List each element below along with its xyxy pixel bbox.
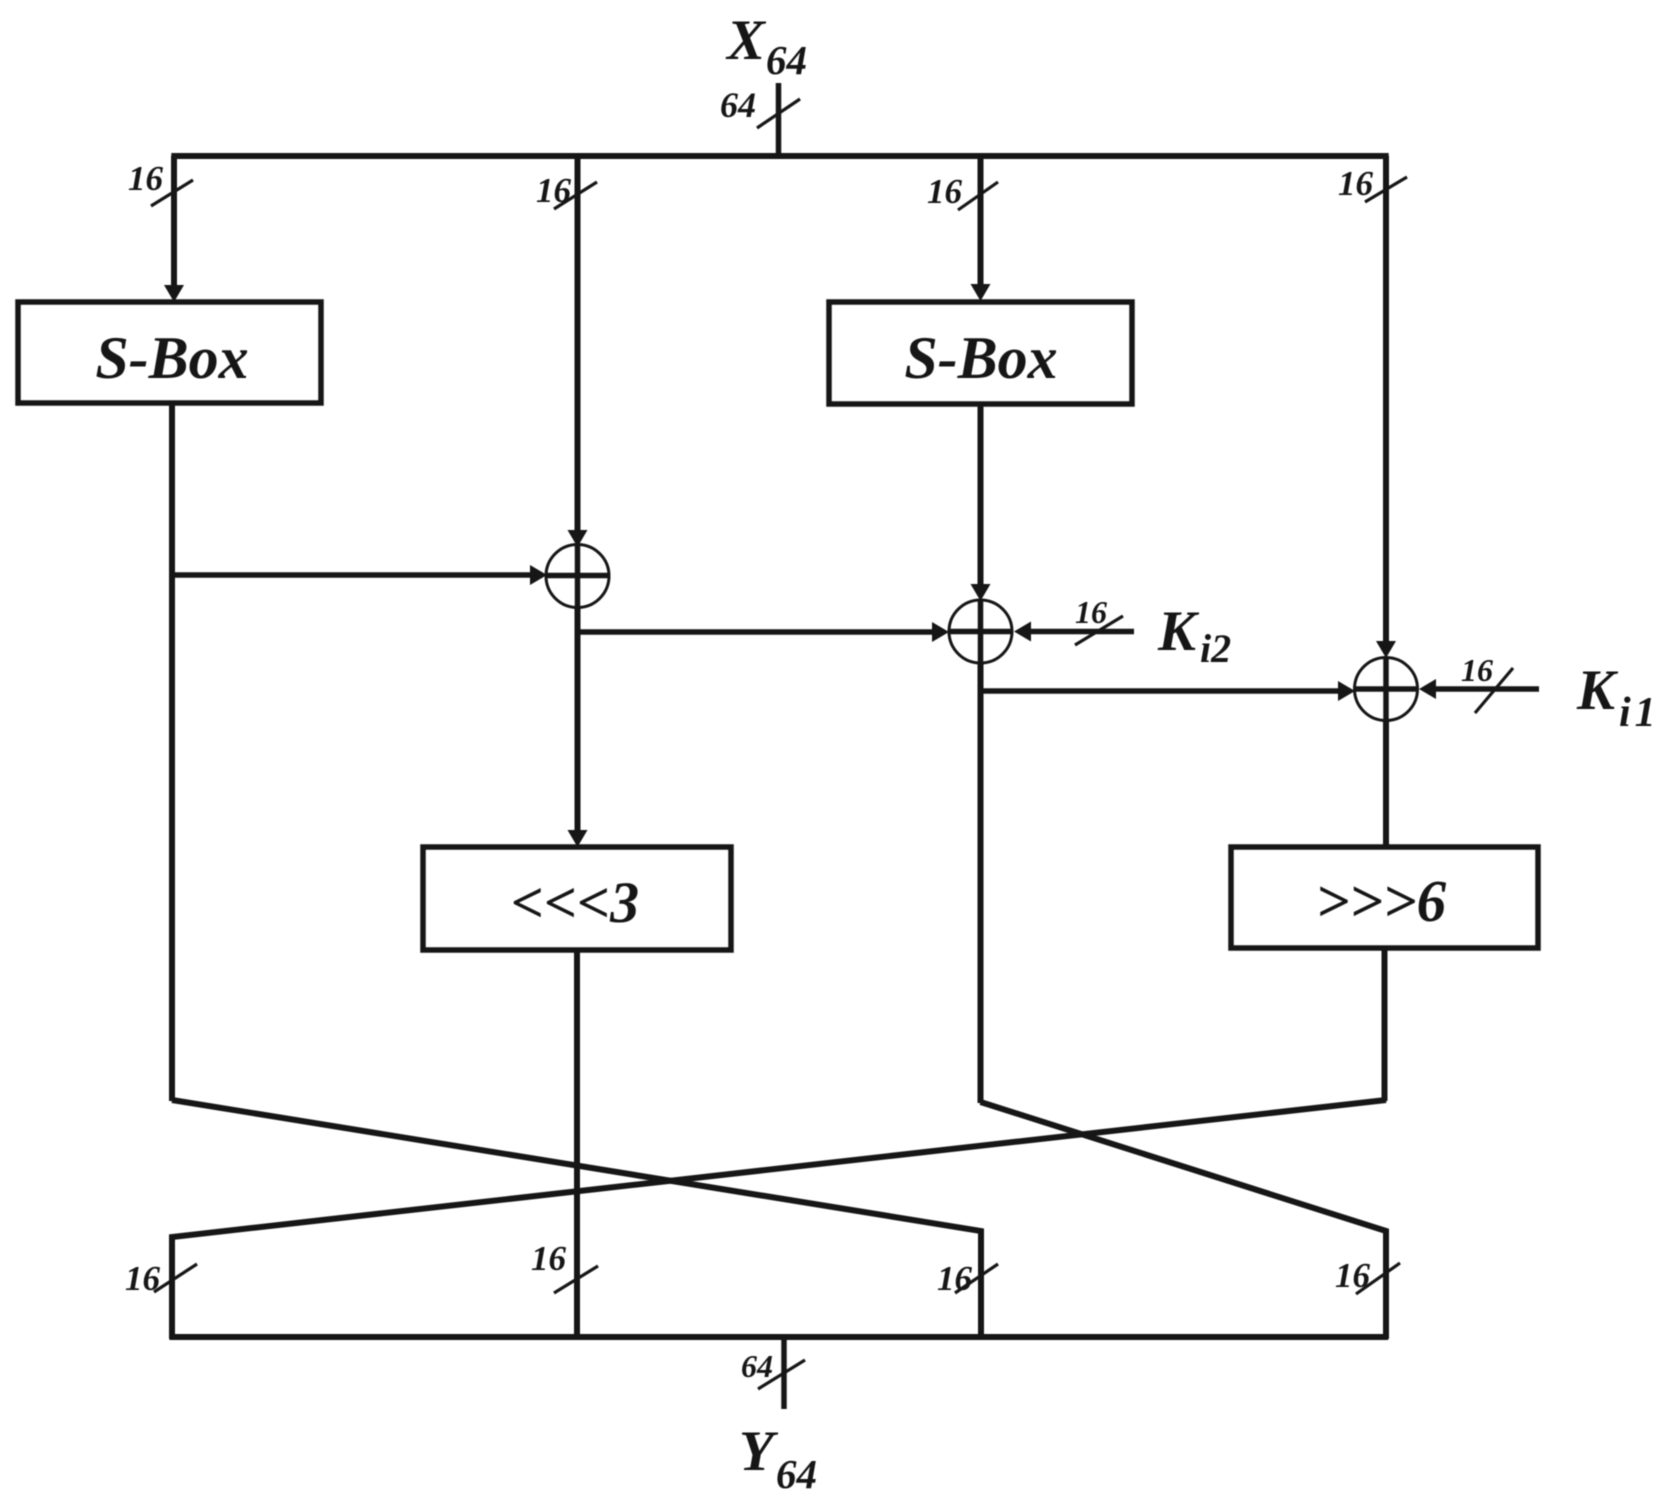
svg-text:Y: Y (739, 1420, 779, 1483)
svg-text:64: 64 (720, 85, 756, 125)
xor gate XOR3 (1355, 658, 1418, 721)
arrowhead into XOR3 (right) (1419, 679, 1436, 699)
bus slash (bottom position 4) (1356, 1263, 1400, 1294)
bus slash (bottom position 2) (554, 1266, 598, 1293)
arrowhead into XOR1 (left) (530, 565, 547, 585)
wire key Ki2 input (1029, 629, 1134, 635)
arrowhead into XOR2 (right) (1014, 622, 1031, 642)
bus slash (branch 3 top) (958, 182, 998, 210)
bus slash (branch 4 top) (1365, 177, 1407, 202)
bus width 16 label (branch 3 top) (927, 172, 963, 211)
wire XOR1 to XOR2 horizontal (578, 629, 934, 635)
wire XOR3 to >>>6 vertical (1383, 720, 1389, 848)
block rotate right >>>6 (1231, 847, 1538, 948)
wire branch 4 vertical (top) (1383, 156, 1389, 643)
arrowhead into <<<3 (568, 830, 588, 847)
block rotate left <<<3 (423, 847, 731, 950)
svg-text:<<<3: <<<3 (511, 870, 639, 935)
node Ki1 label (1576, 659, 1660, 736)
svg-text:K: K (1157, 600, 1200, 663)
bus slash (branch 2 top) (554, 182, 597, 209)
svg-text:16: 16 (128, 159, 164, 198)
bus width 16 label (branch 4 top) (1338, 164, 1374, 203)
wire XOR1 output vertical (575, 607, 581, 833)
svg-text:16: 16 (536, 171, 572, 210)
arrowhead into XOR1 (568, 530, 588, 547)
node Y64 (739, 1420, 817, 1497)
bus width 16 label (bottom position 2) (531, 1239, 567, 1278)
bus width 16 label (bottom position 3) (937, 1259, 973, 1298)
bus width 64 label (bottom) (741, 1348, 773, 1384)
svg-text:X: X (725, 9, 767, 72)
arrowhead into XOR2 (left) (932, 622, 949, 642)
bus width 64 label (top) (720, 85, 756, 125)
arrowhead into S-Box 1 (164, 285, 184, 302)
svg-text:S-Box: S-Box (904, 325, 1057, 391)
bus slash (top 64) (757, 99, 800, 128)
block S-Box 2 (829, 302, 1132, 404)
wire >>>6 output vertical (1382, 948, 1388, 1101)
svg-text:64: 64 (741, 1348, 773, 1384)
wire crossover diagonal branch3 to position4 (981, 1102, 1387, 1339)
bus slash (bottom position 1) (154, 1264, 197, 1292)
xor gate XOR1 (546, 545, 609, 608)
wire branch 3 vertical (top) (978, 156, 984, 285)
bus slash (Ki1) (1475, 668, 1513, 713)
wire S-Box 1 output vertical (169, 403, 175, 1101)
svg-text:i2: i2 (1200, 626, 1231, 671)
wire branch 1 vertical (top) (171, 156, 177, 286)
svg-text:64: 64 (776, 1451, 817, 1497)
bus slash (bottom position 3) (955, 1264, 998, 1293)
bus width 16 label (Ki2) (1075, 594, 1107, 630)
arrowhead into XOR3 (1376, 641, 1396, 658)
svg-text:16: 16 (1075, 594, 1107, 630)
bus width 16 label (Ki1) (1461, 652, 1493, 688)
wire crossover diagonal branch4 to position1 (172, 1100, 1386, 1339)
svg-text:16: 16 (1461, 652, 1493, 688)
svg-text:i1: i1 (1619, 690, 1660, 736)
svg-text:16: 16 (927, 172, 963, 211)
wire top distribution line (171, 153, 1388, 159)
bus slash (Ki2) (1075, 616, 1123, 645)
node Ki2 label (1157, 600, 1231, 671)
arrowhead into XOR2 (top) (971, 584, 991, 601)
bus width 16 label (branch 2 top) (536, 171, 572, 210)
svg-text:>>>6: >>>6 (1316, 868, 1447, 934)
svg-text:16: 16 (1338, 164, 1374, 203)
wire X64 input stem (776, 83, 782, 156)
arrowhead into XOR3 (left) (1338, 681, 1355, 701)
xor gate XOR2 (949, 600, 1012, 663)
bus width 16 label (bottom position 4) (1335, 1256, 1371, 1295)
wire crossover diagonal branch1 to position3 (172, 1100, 981, 1339)
bus width 16 label (bottom position 1) (125, 1259, 161, 1298)
bus width 16 label (branch 1 top) (128, 159, 164, 198)
node X64 (725, 9, 807, 83)
wire key Ki1 input (1434, 686, 1539, 692)
wire branch 2 vertical (top) (575, 156, 581, 532)
wire bottom collection line (170, 1334, 1389, 1340)
wire S-Box 2 output vertical (978, 404, 984, 586)
arrowhead into S-Box 2 (971, 284, 991, 301)
svg-text:S-Box: S-Box (95, 325, 248, 391)
wire S-Box1 to XOR1 horizontal (172, 572, 531, 578)
wire Y64 output stem (781, 1337, 787, 1409)
wire XOR2 to XOR3 horizontal (981, 688, 1340, 694)
svg-text:16: 16 (531, 1239, 567, 1278)
svg-text:K: K (1576, 659, 1619, 722)
wire XOR2 output vertical (978, 662, 984, 1103)
wire <<<3 output vertical (straight to bottom) (574, 950, 580, 1339)
block S-Box 1 (18, 302, 321, 403)
svg-text:64: 64 (766, 37, 807, 83)
bus slash (branch 1 top) (151, 180, 193, 206)
bus slash (bottom 64) (758, 1360, 805, 1389)
